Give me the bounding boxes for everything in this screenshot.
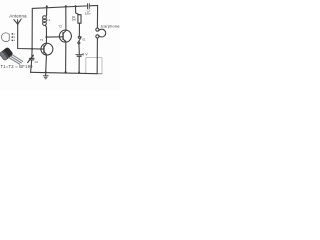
- svg-text:L1: L1: [47, 18, 51, 22]
- svg-text:5k6: 5k6: [72, 18, 77, 22]
- svg-text:S1: S1: [82, 38, 86, 42]
- svg-text:T1=T2 = BF199: T1=T2 = BF199: [1, 64, 34, 69]
- svg-text:T2: T2: [58, 25, 62, 29]
- svg-text:C2: C2: [35, 60, 39, 64]
- svg-text:T1: T1: [40, 38, 44, 42]
- svg-text:Earphones: Earphones: [101, 24, 120, 29]
- svg-text:Antenna: Antenna: [9, 13, 27, 18]
- svg-text:9V: 9V: [82, 52, 88, 56]
- svg-text:220n: 220n: [85, 11, 91, 15]
